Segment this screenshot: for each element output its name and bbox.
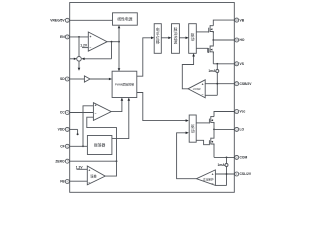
wire B to C xyxy=(179,37,188,40)
arrow into summing node from left xyxy=(70,58,77,60)
wire gate D to M4 xyxy=(197,140,210,144)
wire pin2 EN to op-amp xyxy=(69,36,88,38)
svg-text:−: − xyxy=(90,46,92,50)
pin 6 CF xyxy=(60,144,69,148)
svg-text:−: − xyxy=(212,182,214,186)
wire PWM to level-shift chain xyxy=(137,37,154,77)
wire CSL pin to comparator plus xyxy=(215,173,234,175)
svg-text:+: + xyxy=(88,168,90,172)
pin 3 SD xyxy=(60,77,69,81)
wire LO pin xyxy=(214,128,235,130)
svg-text:误差: 误差 xyxy=(90,173,96,178)
current source I2 1mA xyxy=(218,157,228,185)
pin 5 VDD xyxy=(58,127,70,131)
svg-text:+: + xyxy=(90,35,92,39)
wire pin6 CF to oscillator xyxy=(69,145,87,147)
node ZERO junction xyxy=(116,160,118,162)
svg-text:FB: FB xyxy=(60,180,65,184)
svg-text:线性电源: 线性电源 xyxy=(117,16,132,21)
pin 4 CC xyxy=(60,111,69,115)
svg-text:PWM逻辑控制: PWM逻辑控制 xyxy=(115,82,134,87)
wire pin3 SD to buffer xyxy=(69,78,84,80)
wire A to B xyxy=(161,37,171,40)
wire net to U5 third input xyxy=(87,117,117,161)
svg-text:EN: EN xyxy=(60,35,65,39)
comparator U3 (high-side current limit) xyxy=(188,80,205,98)
svg-text:动: 动 xyxy=(191,37,195,42)
transistor M2 (high-side lower MOSFET) xyxy=(209,40,214,53)
pin LO xyxy=(235,127,245,131)
svg-text:Vcc: Vcc xyxy=(240,110,246,114)
pin 8 FB xyxy=(60,180,69,184)
wire CF ramp to U5 plus xyxy=(82,106,93,147)
svg-text:HO: HO xyxy=(240,38,245,42)
svg-text:SD: SD xyxy=(60,77,65,81)
wire EN down to summing node xyxy=(78,37,80,57)
pin VB xyxy=(235,18,245,22)
summing node S1 xyxy=(77,57,82,62)
svg-text:波: 波 xyxy=(174,40,178,45)
svg-text:动: 动 xyxy=(191,129,195,134)
buffer U2 xyxy=(84,76,90,82)
svg-text:+: + xyxy=(212,172,214,176)
wire feedback U1 output to summing node xyxy=(81,42,111,60)
svg-text:移: 移 xyxy=(156,40,160,45)
block D 驱动 (low side driver) xyxy=(189,115,196,142)
pin 1 VREG xyxy=(50,18,69,22)
svg-text:过流保护: 过流保护 xyxy=(193,87,201,91)
wire HO pin xyxy=(213,39,234,41)
svg-text:振荡器: 振荡器 xyxy=(94,143,106,148)
current source I1 1mA xyxy=(208,64,218,96)
block A 电平位移 xyxy=(154,24,161,54)
svg-text:1mA: 1mA xyxy=(208,69,216,73)
svg-text:CSL/2V: CSL/2V xyxy=(240,172,252,176)
wire oscillator to PWM block xyxy=(112,100,129,139)
reference 1.2V stub U6 xyxy=(76,165,88,169)
block B 脉冲滤波 xyxy=(172,24,180,54)
reference 1.2V stub U1 xyxy=(80,43,88,47)
wire PWM to low side driver D xyxy=(137,93,189,122)
transistor M1 (high-side upper MOSFET) xyxy=(209,25,214,33)
svg-text:1mA: 1mA xyxy=(218,163,226,167)
svg-text:VDD: VDD xyxy=(58,128,66,132)
node EN junction xyxy=(78,36,80,38)
wire U3 output to block C xyxy=(182,53,195,89)
svg-text:1.2V: 1.2V xyxy=(76,165,84,169)
svg-text:ZERO: ZERO xyxy=(55,159,65,163)
pin CSL xyxy=(235,172,252,176)
svg-text:−: − xyxy=(202,93,204,97)
wire I2 to comparator minus xyxy=(215,184,226,186)
arrow down from summing node xyxy=(78,61,81,71)
svg-text:LO: LO xyxy=(240,128,245,132)
pin COM xyxy=(235,155,248,159)
wire pin8 FB to error amp xyxy=(69,180,87,182)
regulator block 线性电源 xyxy=(113,13,138,25)
wire pin4 CC to op-amp U5 xyxy=(69,112,93,114)
wire pin1 to linear-reg xyxy=(69,19,112,21)
op-amp U6 error amplifier 误差 xyxy=(87,166,105,185)
op-amp U5 (PWM comparator) xyxy=(93,103,111,121)
oscillator block 振荡器 xyxy=(87,136,112,155)
pin 7 ZERO xyxy=(55,159,69,163)
svg-text:−: − xyxy=(95,112,97,116)
op-amp U1 (EN comparator) xyxy=(88,32,107,51)
transistor M3 (low-side upper MOSFET) xyxy=(209,116,214,124)
svg-text:CC: CC xyxy=(60,111,65,115)
wire VB pin to M1 drain xyxy=(213,20,234,26)
wire M3 source to LO xyxy=(213,122,215,130)
block C 驱动 (high side driver) xyxy=(189,24,197,54)
svg-text:驱: 驱 xyxy=(191,125,195,129)
svg-text:CF: CF xyxy=(60,145,64,149)
svg-text:CSB/2V: CSB/2V xyxy=(240,82,253,86)
wire pin7 ZERO line xyxy=(69,160,116,162)
wire gate D to M3 xyxy=(197,122,210,124)
PWM logic block xyxy=(112,71,137,97)
svg-text:VS: VS xyxy=(240,62,245,66)
wire U6 output up to ZERO line xyxy=(105,161,116,176)
wire VCC pin to M3 drain xyxy=(214,112,235,117)
svg-text:1.2V: 1.2V xyxy=(80,43,88,47)
pin 2 EN xyxy=(60,35,69,39)
wire gate C to M2 xyxy=(196,48,208,52)
svg-text:过流保护: 过流保护 xyxy=(203,178,214,182)
svg-text:VREG/5V: VREG/5V xyxy=(50,19,65,23)
wire M4 source to COM xyxy=(214,144,235,158)
wire U5 output to PWM block xyxy=(111,100,122,112)
wire buffer to PWM block xyxy=(90,78,112,81)
wire CSH pin to comparator plus xyxy=(205,83,235,85)
pin VCC xyxy=(235,110,246,114)
wire I1 to comparator minus xyxy=(205,94,217,96)
transistor M4 (low-side lower MOSFET) xyxy=(209,129,214,145)
pin HO xyxy=(235,38,245,42)
svg-text:VB: VB xyxy=(240,18,245,22)
wire M1 source to HO xyxy=(212,32,214,41)
wire M2 source to VS xyxy=(213,52,234,65)
svg-text:+: + xyxy=(202,83,204,87)
wire gate C to M1 xyxy=(196,31,208,33)
svg-text:+: + xyxy=(95,103,97,107)
wire U1 output to node xyxy=(107,41,119,43)
wire U4 output to block D xyxy=(177,132,197,179)
wire regulator to PWM (double arrow) xyxy=(118,25,121,71)
svg-text:−: − xyxy=(88,180,90,184)
pin VS xyxy=(235,62,245,66)
svg-text:COM: COM xyxy=(240,156,248,160)
pin 5 VDD stub xyxy=(69,128,77,130)
comparator U4 (low-side current limit) xyxy=(196,170,215,186)
pin CSH xyxy=(235,82,253,86)
